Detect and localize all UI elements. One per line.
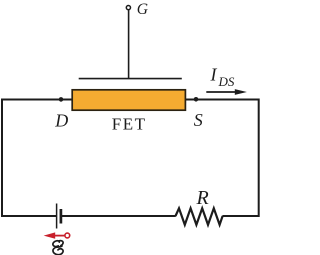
svg-text:DS: DS: [218, 74, 235, 89]
label script-E (EMF symbol): [53, 241, 63, 255]
node D (drain junction dot): [59, 97, 64, 102]
node S (source junction dot): [194, 97, 199, 102]
wire: drain lead from FET to top-left corner: [1, 99, 72, 101]
current arrow I_DS: [206, 89, 247, 95]
gate plate: [79, 78, 182, 80]
resistor R: [176, 208, 223, 225]
battery long plate (positive): [56, 204, 58, 229]
EMF polarity arrow (red, pointing left, open circle tail): [44, 232, 70, 238]
wire: gate lead: [128, 10, 130, 79]
svg-text:G: G: [137, 1, 149, 18]
wire: right vertical side: [258, 99, 260, 218]
wire: resistor to bottom-right corner: [222, 215, 259, 217]
wire: battery to resistor: [61, 215, 176, 217]
svg-text:D: D: [54, 110, 68, 130]
svg-text:FET: FET: [112, 114, 147, 133]
terminal G (open circle): [126, 6, 130, 10]
wire: bottom-left to battery: [1, 215, 57, 217]
svg-text:R: R: [196, 187, 209, 209]
FET body (channel bar): [72, 90, 185, 110]
battery short plate (negative): [60, 209, 63, 224]
wire: left vertical side: [1, 99, 3, 218]
label I_DS: [210, 65, 235, 90]
svg-text:S: S: [194, 110, 203, 130]
svg-text:I: I: [210, 65, 218, 85]
wire: source lead from FET to top-right corner: [186, 99, 259, 101]
